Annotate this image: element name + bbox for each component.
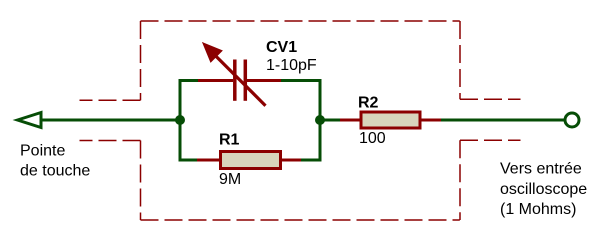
capacitor CV1: [198, 44, 281, 105]
wire: bottom branch left segment: [179, 159, 199, 162]
probe body dashed outline: top side: [141, 20, 460, 22]
resistor R2: [340, 112, 441, 128]
probe body dashed outline: left side upper: [140, 21, 142, 100]
svg-text:100: 100: [359, 130, 386, 147]
CV1 left plate: [233, 60, 237, 101]
probe body dashed outline: right bottom stub: [460, 139, 521, 141]
probe body dashed outline: left bottom stub: [80, 140, 141, 142]
svg-text:R2: R2: [358, 95, 379, 112]
R1 left lead: [197, 159, 221, 162]
wire: bottom branch right segment: [301, 159, 322, 162]
CV1 trimmer arrowhead: [204, 44, 220, 60]
svg-text:Vers entrée: Vers entrée: [500, 161, 582, 178]
CV1 right plate: [244, 60, 248, 101]
probe tip arrow: [18, 113, 42, 128]
R2 body: [361, 112, 420, 128]
resistor R1: [197, 152, 301, 169]
probe body dashed outline: bottom side: [141, 219, 460, 221]
CV1 left lead: [198, 79, 233, 82]
probe body dashed outline: right top stub: [460, 98, 521, 100]
wire: probe tip to node A: [41, 119, 180, 122]
node B junction dot: [315, 115, 325, 125]
probe body dashed outline: right side upper: [459, 21, 461, 99]
output terminal circle: [565, 113, 579, 127]
probe body dashed outline: left top stub: [80, 99, 141, 101]
CV1 right lead: [247, 79, 281, 82]
svg-text:1-10pF: 1-10pF: [266, 57, 317, 74]
wire: left vertical branch: [179, 81, 182, 161]
svg-text:Pointe: Pointe: [20, 143, 65, 160]
wire: node B to R2: [320, 119, 340, 122]
svg-text:9M: 9M: [219, 171, 241, 188]
R2 right lead: [420, 119, 441, 122]
R1 body: [221, 152, 281, 169]
wire: R2 to output terminal: [441, 119, 564, 122]
svg-text:de touche: de touche: [20, 163, 90, 180]
probe body dashed outline: left side lower: [140, 141, 142, 221]
R1 right lead: [281, 159, 301, 162]
wire: top branch right segment: [281, 79, 322, 82]
CV1 trimmer arrow shaft: [216, 56, 266, 105]
wire: top branch left segment: [179, 79, 200, 82]
svg-text:(1 Mohms): (1 Mohms): [500, 201, 576, 218]
svg-text:oscilloscope: oscilloscope: [500, 181, 587, 198]
node A junction dot: [175, 115, 185, 125]
R2 left lead: [340, 119, 361, 122]
wire: right vertical branch: [319, 81, 322, 161]
svg-text:R1: R1: [219, 132, 240, 149]
probe body dashed outline: right side lower: [459, 140, 461, 220]
svg-text:CV1: CV1: [266, 39, 297, 56]
